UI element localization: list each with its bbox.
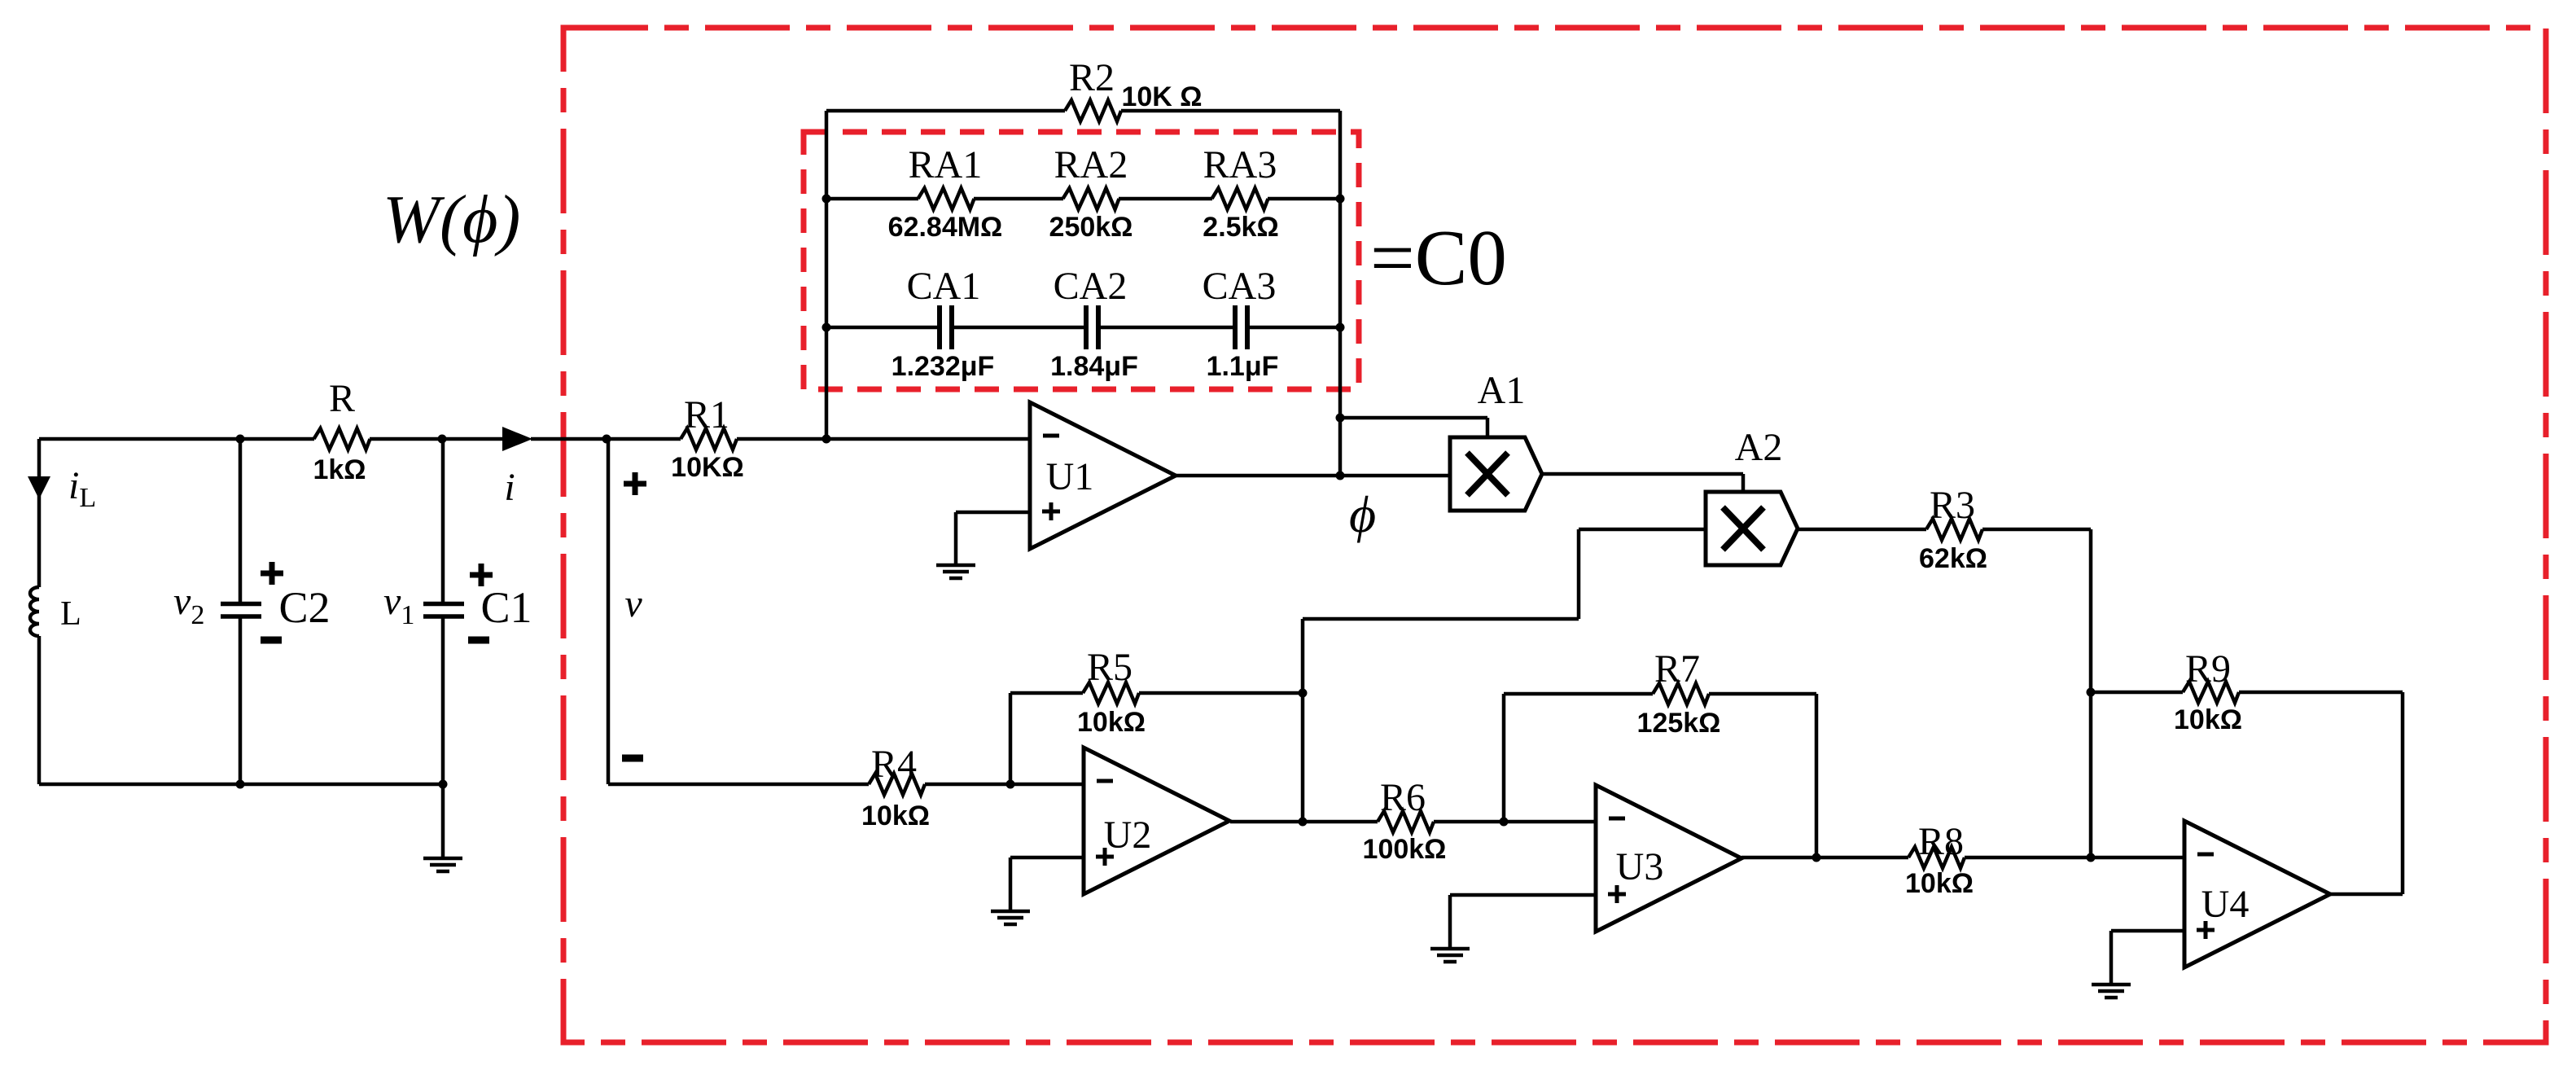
wire R9 wire left [2091,691,2183,695]
node R8/R3 node [2087,853,2096,862]
svg-text:RA3: RA3 [1203,143,1277,186]
wire R8 right wire [1965,856,2184,860]
wire A1 top lead [1486,418,1490,437]
wire C2 top lead [239,439,243,603]
wire bottom wire left circuit [39,783,443,787]
outer dashed box W(phi) [563,28,2546,1042]
svg-text:A1: A1 [1478,369,1526,412]
wire U1 minus input wire [826,437,1030,441]
svg-text:2.5kΩ: 2.5kΩ [1203,212,1278,243]
wire C2 bottom lead [239,616,243,784]
wire R6 right wire [1434,820,1596,824]
svg-text:R4: R4 [871,743,917,786]
node CA row right [1336,323,1345,332]
resistor R9 [2183,682,2239,703]
node R6/R7 node [1500,818,1509,827]
svg-text:U3: U3 [1616,845,1664,888]
svg-text:L: L [60,595,81,633]
wire R3 wire left [1798,528,1926,532]
svg-text:v: v [624,582,642,625]
svg-text:W(ϕ): W(ϕ) [383,182,520,257]
capacitor C1 plates [423,604,464,617]
node R9 left node [2087,688,2096,697]
wire wire to A1 top [1340,416,1487,420]
svg-text:A2: A2 [1735,426,1783,469]
wire A1 output wire [1542,472,1743,476]
wire left vertical lower [37,636,42,784]
op-amp U1 [1030,402,1176,549]
wire RA row wire seg2 [974,197,1063,201]
node R1 out / network bottom [822,435,831,444]
plus sign v + [624,472,646,495]
capacitor CA2 [1086,305,1098,349]
multiplier A2 [1706,492,1798,565]
capacitor CA3 [1235,305,1247,349]
wire U4 plus ground stem [2109,931,2114,985]
svg-text:CA2: CA2 [1054,265,1128,308]
wire RA row wire seg3 [1119,197,1212,201]
wire R3 output vertical [2089,529,2093,857]
node R left / C2 top [236,435,245,444]
wire U3 plus ground stem [1448,895,1452,949]
node v+ branch [602,435,611,444]
resistor R8 [1908,847,1965,868]
wire feedback vertical x1600 [1301,619,1305,822]
svg-text:R6: R6 [1380,776,1426,819]
wire RA row wire seg4 [1268,197,1340,201]
wire left vertical upper [37,439,42,587]
wire R5 left vertical [1009,693,1013,784]
node C1 bottom [439,780,448,789]
resistor R4 [869,774,925,795]
svg-text:U2: U2 [1104,814,1152,857]
op-amp U3 [1596,785,1741,932]
wire R3 wire right [1982,528,2091,532]
wire R7 wire right [1709,692,1816,696]
wire R4 wire left [608,783,869,787]
svg-text:U4: U4 [2201,883,2250,926]
wire R7 left vertical [1502,694,1506,822]
wire RA row wire seg1 [826,197,918,201]
wire A2 left input wire [1579,528,1706,532]
capacitor C2 plates [221,604,261,617]
wire R4 wire right [925,783,1084,787]
svg-text:=C0: =C0 [1370,214,1507,301]
svg-text:250kΩ: 250kΩ [1049,212,1133,243]
wire U2 plus ground stem [1009,857,1013,911]
resistor RA2 [1063,188,1119,209]
ground below C1 [423,858,462,871]
wire A2 top lead [1741,474,1746,492]
wire v branch vertical [607,439,611,784]
svg-text:CA3: CA3 [1203,265,1277,308]
node RA row right [1336,195,1345,204]
svg-text:10kΩ: 10kΩ [861,800,930,831]
svg-text:125kΩ: 125kΩ [1637,708,1721,739]
wire C1 bottom lead [441,616,445,784]
wire main wire seg2 [370,437,503,441]
wire feedback horizontal [1303,617,1579,621]
ground U4 [2092,985,2131,998]
ground U2 [991,911,1030,924]
resistor R5 [1083,682,1139,704]
svg-text:1.84μF: 1.84μF [1050,351,1138,382]
svg-text:R5: R5 [1087,646,1132,689]
wire R7 wire left [1504,692,1653,696]
wire U1 output wire [1176,474,1450,478]
svg-text:62.84MΩ: 62.84MΩ [888,212,1003,243]
resistor RA3 [1212,188,1268,209]
wire R5 wire right [1139,691,1303,695]
node RA row left [822,195,831,204]
wire CA row wire seg4 [1249,326,1340,330]
svg-text:R9: R9 [2185,647,2231,691]
wire main wire seg4 [737,437,826,441]
wire U1 plus ground stem [954,512,958,565]
arrow iL [28,476,50,499]
node CA row left [822,323,831,332]
wire U3 plus input wire [1450,893,1596,897]
inductor L [30,587,39,636]
node phi tap upper [1336,414,1345,423]
node R5 right node [1299,689,1308,698]
inner dashed box =C0 [804,132,1359,389]
wire CA row wire seg2 [953,326,1084,330]
svg-text:CA1: CA1 [907,265,981,308]
svg-text:10KΩ: 10KΩ [671,452,744,483]
wire CA row wire seg1 [826,326,938,330]
minus sign C1 - [468,637,489,644]
node C2 bottom [236,780,245,789]
node phi node [1336,472,1345,480]
plus sign C2 + [261,562,283,585]
wire R5 wire left [1010,691,1083,695]
node C1 top [438,435,447,444]
resistor R1 [681,428,737,450]
wire R2 wire left [826,109,1065,113]
svg-text:i: i [504,466,515,509]
minus sign C2 - [261,637,282,644]
minus sign v - [622,755,643,762]
svg-text:62kΩ: 62kΩ [1919,543,1987,574]
svg-text:R7: R7 [1654,647,1700,691]
wire R7 right vertical [1815,694,1819,857]
op-amp U4 [2184,821,2330,967]
resistor R2 [1065,100,1121,121]
wire main wire seg1 [39,437,314,441]
svg-text:10kΩ: 10kΩ [1905,868,1974,899]
ground U3 [1430,949,1470,962]
svg-text:1.232μF: 1.232μF [892,351,995,382]
ground U1 [936,565,975,578]
svg-text:R2: R2 [1069,56,1115,99]
node U2 out node [1299,818,1308,827]
wire U2 output wire [1230,820,1378,824]
svg-text:RA1: RA1 [909,143,983,186]
wire U4 output wire [2330,893,2403,897]
wire C1 top lead [441,439,445,603]
svg-text:10kΩ: 10kΩ [2174,704,2242,735]
resistor R7 [1653,683,1709,704]
wire U1 plus input wire [956,511,1030,515]
svg-text:R3: R3 [1930,484,1975,527]
node R4/U2 junction [1006,780,1015,789]
wire R9 wire right [2239,691,2403,695]
resistor RA1 [918,188,975,209]
wire U4 plus input wire [2111,929,2184,933]
resistor R3 [1926,519,1982,540]
svg-text:R1: R1 [684,393,729,436]
node U3 out node [1812,853,1821,862]
op-amp U2 [1084,748,1229,894]
plus sign C1 + [470,564,493,586]
multiplier A1 [1450,437,1542,511]
wire U3 output wire [1741,856,1908,860]
svg-text:1.1μF: 1.1μF [1207,351,1279,382]
wire ground stem C1 [441,784,445,858]
svg-text:U1: U1 [1046,455,1094,498]
wire network right vertical [1338,111,1343,476]
wire network left vertical [825,111,829,439]
wire R9 right vertical [2401,692,2405,894]
resistor R6 [1378,811,1434,832]
svg-text:C2: C2 [278,583,330,632]
svg-text:RA2: RA2 [1054,143,1128,186]
svg-text:10kΩ: 10kΩ [1077,707,1146,738]
arrow i on main wire [502,427,532,451]
svg-text:10K Ω: 10K Ω [1121,81,1202,112]
capacitor CA1 [940,305,952,349]
wire U2 plus input wire [1010,856,1084,860]
svg-text:1kΩ: 1kΩ [313,454,366,485]
wire A2 input vertical [1577,529,1581,619]
svg-text:R8: R8 [1918,820,1964,863]
svg-text:R: R [329,377,355,420]
resistor R [314,428,370,450]
wire main wire seg3 [531,437,681,441]
wire R2 wire right [1121,109,1340,113]
svg-text:C1: C1 [480,583,532,632]
svg-text:ϕ: ϕ [1349,485,1376,543]
svg-text:100kΩ: 100kΩ [1363,834,1447,865]
wire CA row wire seg3 [1100,326,1233,330]
